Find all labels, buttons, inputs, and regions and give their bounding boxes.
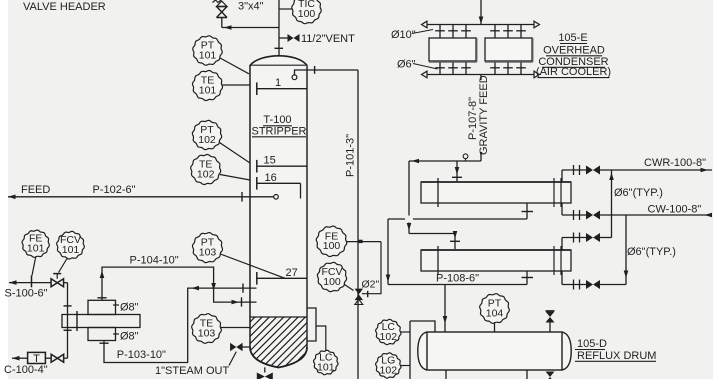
svg-text:100: 100 — [298, 8, 316, 20]
svg-text:104: 104 — [486, 307, 504, 319]
svg-text:Ø2": Ø2" — [362, 279, 380, 291]
svg-text:102: 102 — [198, 134, 216, 146]
svg-text:100: 100 — [323, 276, 341, 288]
svg-text:102: 102 — [380, 364, 398, 376]
svg-text:GRAVITY FEED: GRAVITY FEED — [478, 75, 490, 155]
svg-text:102: 102 — [380, 331, 398, 343]
svg-text:Ø6": Ø6" — [397, 59, 416, 71]
svg-text:S-100-6": S-100-6" — [5, 288, 48, 300]
svg-text:Ø6"(TYP.): Ø6"(TYP.) — [614, 187, 663, 199]
svg-text:16: 16 — [265, 172, 277, 184]
svg-text:105-E: 105-E — [558, 32, 587, 44]
svg-text:STRIPPER: STRIPPER — [251, 125, 306, 137]
svg-text:1"STEAM OUT: 1"STEAM OUT — [155, 365, 229, 377]
svg-text:Ø10": Ø10" — [391, 29, 416, 41]
svg-text:101: 101 — [62, 244, 80, 256]
svg-text:Ø8": Ø8" — [120, 331, 139, 343]
svg-text:OVERHEAD: OVERHEAD — [543, 44, 605, 56]
svg-text:C-100-4": C-100-4" — [4, 364, 48, 376]
svg-text:CWR-100-8": CWR-100-8" — [644, 157, 706, 169]
svg-text:(AIR COOLER): (AIR COOLER) — [536, 66, 611, 78]
svg-text:100: 100 — [323, 240, 341, 252]
svg-text:Ø6"(TYP.): Ø6"(TYP.) — [627, 246, 676, 258]
svg-text:P-103-10": P-103-10" — [117, 349, 166, 361]
svg-text:11/2"VENT: 11/2"VENT — [301, 33, 355, 45]
svg-text:105-D: 105-D — [577, 338, 607, 350]
svg-text:T-100: T-100 — [263, 114, 291, 126]
svg-text:101: 101 — [27, 243, 45, 255]
svg-text:1: 1 — [275, 77, 281, 89]
svg-text:P-101-3": P-101-3" — [345, 134, 357, 177]
svg-text:27: 27 — [286, 267, 298, 279]
svg-text:Ø8": Ø8" — [120, 302, 139, 314]
svg-text:15: 15 — [264, 155, 276, 167]
svg-text:FEED: FEED — [21, 184, 50, 196]
svg-text:3"x4": 3"x4" — [238, 1, 264, 13]
svg-text:REFLUX DRUM: REFLUX DRUM — [577, 350, 656, 362]
svg-text:P-104-10": P-104-10" — [130, 255, 179, 267]
svg-text:CW-100-8": CW-100-8" — [648, 203, 702, 215]
svg-text:VALVE HEADER: VALVE HEADER — [23, 1, 106, 13]
svg-text:102: 102 — [197, 168, 215, 180]
svg-text:101: 101 — [199, 84, 217, 96]
svg-text:103: 103 — [199, 246, 217, 258]
svg-text:P-108-6": P-108-6" — [436, 273, 479, 285]
svg-text:101: 101 — [199, 49, 217, 61]
svg-text:T: T — [33, 353, 40, 365]
svg-text:101: 101 — [317, 361, 335, 373]
svg-text:P-102-6": P-102-6" — [93, 184, 136, 196]
svg-text:103: 103 — [198, 327, 216, 339]
